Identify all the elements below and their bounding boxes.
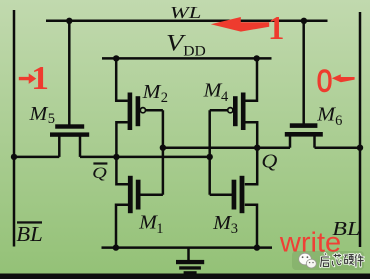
svg-text:1: 1 [156,221,163,237]
svg-text:Q: Q [92,164,107,182]
svg-text:6: 6 [335,113,342,129]
svg-text:3: 3 [231,221,238,237]
svg-text:2: 2 [161,90,168,106]
svg-text:M: M [316,105,337,126]
svg-text:4: 4 [221,89,229,105]
svg-text:DD: DD [183,43,206,59]
svg-text:1: 1 [268,10,284,47]
svg-text:Q: Q [261,150,278,172]
svg-text:M: M [28,104,49,125]
svg-text:BL: BL [16,224,43,246]
svg-text:1: 1 [31,60,49,97]
svg-text:5: 5 [48,111,55,127]
svg-text:M: M [142,82,163,103]
svg-text:0: 0 [317,62,333,98]
svg-text:M: M [212,213,233,234]
svg-text:WL: WL [170,3,202,22]
